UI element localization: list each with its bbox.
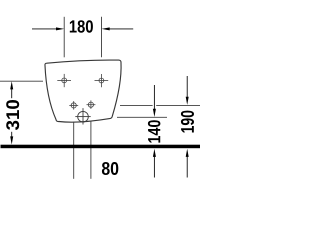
dim 140: reference line at drain height <box>117 116 167 118</box>
fixing hole top-right <box>95 74 109 87</box>
dim 180: arrowheads <box>56 27 64 30</box>
dim 180: arrow lines <box>32 28 133 30</box>
dim 310: stem + arrows <box>11 89 13 138</box>
dim 140: bottom arrow below floor <box>153 156 155 178</box>
dim 190: reference line at hole height <box>120 104 200 106</box>
dim 310: label (rotated) <box>6 100 19 130</box>
dim 80: extension lines <box>74 121 91 179</box>
dim 140: top stem + arrow <box>153 85 155 110</box>
fixing hole top-left <box>57 74 71 87</box>
dim 140: label (rotated) <box>148 120 161 142</box>
dim 190: bottom arrow below floor <box>186 156 188 178</box>
dim 310: top tick <box>0 80 43 82</box>
hole bottom-left <box>69 101 78 110</box>
floor line <box>1 145 201 149</box>
dim 180: label <box>70 20 93 33</box>
dim 190: label (rotated) <box>181 111 194 133</box>
dim 180: extension lines <box>64 17 101 58</box>
big drain hole <box>75 108 90 124</box>
hole bottom-right <box>87 100 96 109</box>
dim 190: top stem + arrow <box>186 76 188 98</box>
bidet body outline <box>45 60 121 122</box>
dim 80: label <box>102 162 118 175</box>
